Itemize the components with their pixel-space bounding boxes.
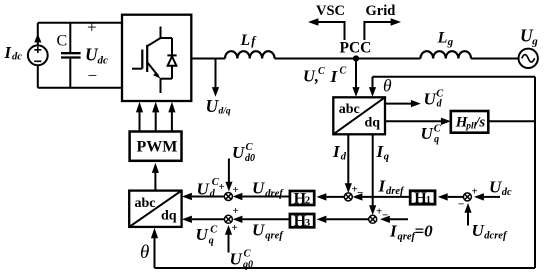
wire pll loop right edge	[534, 77, 536, 268]
wire Udcref input	[467, 213, 469, 226]
arrowhead into abc-dq inverse row1	[182, 193, 192, 200]
current source Idc	[28, 34, 48, 66]
label H2	[294, 190, 311, 207]
svg-text:+: +	[233, 184, 239, 196]
arrow Grid side	[364, 18, 401, 40]
block H1	[410, 191, 435, 204]
svg-text:dc: dc	[502, 187, 512, 198]
svg-text:I: I	[4, 43, 12, 62]
wire H2 to junction Ud	[243, 196, 290, 198]
arrowhead theta inverse	[151, 228, 158, 238]
block H2	[290, 191, 314, 205]
wire ac from VSC to Lf	[191, 58, 225, 60]
wire PWM gate 3	[171, 112, 173, 131]
arrowhead gate 1	[136, 102, 143, 113]
svg-text:abc: abc	[135, 196, 156, 211]
wire ac Lf to Lg	[275, 58, 421, 60]
arrowhead into abc-dq inverse row2	[182, 216, 192, 223]
svg-text:dq: dq	[365, 116, 381, 131]
svg-text:dref: dref	[265, 189, 284, 200]
wire Udc input	[484, 196, 500, 198]
wire UqC out to Hpll	[385, 120, 441, 122]
arrowhead into H3	[317, 216, 327, 223]
wire junction Udc to H1	[448, 196, 464, 198]
diode antiparallel in VSC	[167, 38, 176, 79]
svg-text:g: g	[531, 35, 538, 47]
label Udc	[85, 45, 108, 67]
svg-text:dcref: dcref	[484, 231, 508, 242]
transform box abc-dq measurement	[333, 97, 385, 134]
arrowhead theta into abc-dq	[369, 87, 376, 97]
svg-text:PCC: PCC	[340, 40, 372, 57]
svg-text:3: 3	[305, 218, 310, 229]
summing junction Udc	[463, 193, 471, 201]
svg-text:C: C	[210, 225, 218, 236]
wire junction Id to H2	[327, 196, 345, 198]
svg-text:C: C	[246, 142, 254, 153]
svg-text:dc: dc	[12, 52, 22, 63]
svg-text:C: C	[434, 123, 442, 134]
svg-text:abc: abc	[339, 102, 360, 117]
arrowhead H3 out	[233, 216, 243, 223]
block PWM	[130, 132, 182, 161]
wire PCC to abc-dq	[355, 59, 357, 88]
wire Id down	[347, 134, 349, 183]
node PCC dot	[353, 55, 359, 61]
svg-text:U: U	[206, 96, 220, 116]
label Lf	[240, 32, 258, 49]
svg-text:qref: qref	[265, 231, 284, 242]
svg-text:U: U	[421, 124, 434, 143]
source Ug	[519, 49, 538, 68]
inductor Lf	[225, 51, 275, 58]
svg-text:U: U	[424, 89, 437, 108]
arrowhead Udc	[474, 193, 484, 200]
wire UdC out	[385, 103, 411, 105]
svg-text:q: q	[434, 134, 439, 145]
summing junction Iq	[369, 215, 377, 223]
svg-text:U: U	[252, 221, 265, 240]
transform box abc-dq inverse	[129, 191, 181, 227]
svg-text:1: 1	[426, 195, 431, 206]
arrowhead Udq down	[212, 87, 219, 97]
arrow VSC side	[308, 18, 345, 40]
svg-text:U: U	[230, 250, 243, 269]
wire H3 to junction Uq	[243, 218, 290, 220]
summing junction Ud	[224, 193, 232, 201]
wire junction Uq to abc-dq inverse	[192, 218, 225, 220]
wire abc-dq inverse to PWM	[154, 173, 156, 191]
svg-text:C: C	[340, 66, 347, 77]
label UqC right	[421, 123, 442, 145]
arrowhead Iqref	[380, 216, 390, 223]
label Udc input	[489, 177, 512, 198]
arrowhead UqC into Hpll	[441, 118, 451, 125]
block H3	[290, 214, 314, 227]
svg-text:U: U	[197, 179, 210, 198]
svg-text:C: C	[244, 249, 252, 260]
svg-text:−: −	[458, 199, 464, 211]
label H1	[414, 190, 431, 207]
arrowhead Iq into junction	[369, 205, 376, 215]
wire junction Ud to abc-dq inverse	[192, 196, 225, 198]
svg-text:+: +	[87, 18, 97, 37]
svg-text:U: U	[252, 179, 265, 198]
label Udq	[206, 96, 231, 117]
svg-text:C: C	[57, 33, 68, 50]
svg-text:U: U	[232, 143, 245, 162]
label H3	[294, 213, 311, 230]
svg-text:U: U	[472, 221, 485, 240]
label Uqref	[252, 221, 284, 242]
arrowhead into abc-dq top	[352, 87, 359, 97]
label Id	[332, 142, 347, 163]
svg-text:L: L	[437, 30, 448, 47]
arrowhead Udcref	[464, 203, 471, 213]
arrowhead gate 2	[152, 102, 159, 113]
label Idref	[378, 176, 405, 197]
svg-text:−: −	[88, 66, 98, 85]
wire Ud0 down into junction	[228, 159, 230, 183]
arrowhead UdC	[411, 100, 421, 107]
wire dc left bottom segment	[37, 65, 39, 88]
label UdC right	[424, 88, 445, 109]
svg-text:C: C	[318, 66, 325, 77]
wire dc left top segment	[37, 23, 39, 46]
svg-text:q: q	[384, 152, 389, 163]
svg-text:dc: dc	[98, 54, 109, 66]
arrowhead Ud0	[225, 182, 232, 192]
svg-text:2: 2	[305, 196, 310, 207]
wire Hpll out to loop	[488, 120, 535, 122]
svg-text:Grid: Grid	[366, 3, 396, 19]
svg-text:U: U	[196, 225, 209, 244]
arrowhead H1 out	[353, 193, 363, 200]
svg-text:PWM: PWM	[137, 138, 178, 155]
wire Iqref input	[390, 218, 408, 220]
label Ug	[520, 26, 538, 48]
wire theta into abc-dq inverse	[154, 238, 156, 268]
wire theta into abc-dq	[372, 77, 374, 88]
svg-text:q: q	[209, 235, 214, 246]
wire branch Udq measurement	[215, 59, 217, 88]
arrowhead into H2	[317, 193, 327, 200]
svg-text:/s: /s	[474, 115, 485, 131]
wire Uq0 up into junction	[228, 235, 230, 253]
label Uq0C	[230, 249, 254, 271]
label Udref	[252, 179, 284, 200]
svg-text:L: L	[240, 32, 250, 49]
transistor IGBT inside VSC	[132, 27, 172, 94]
wire junction Iq to H3	[327, 218, 369, 220]
label Iqref equals 0	[389, 222, 433, 243]
label UC IC	[303, 66, 347, 87]
capacitor C	[61, 23, 81, 88]
label Udcref	[472, 221, 508, 242]
svg-text:θ: θ	[140, 242, 149, 263]
svg-text:d/q: d/q	[219, 107, 231, 117]
wire H1 to junction Id	[363, 196, 411, 198]
wire Iq down	[372, 134, 374, 205]
label UdC left	[197, 177, 220, 199]
wire dc top rail	[38, 22, 122, 24]
wire PWM gate 1	[139, 112, 141, 131]
svg-text:=0: =0	[415, 222, 434, 241]
label Iq	[376, 142, 389, 163]
wire PWM gate 2	[155, 112, 157, 131]
svg-text:+: +	[233, 205, 239, 217]
svg-text:+: +	[472, 185, 478, 197]
arrowhead into PWM	[152, 163, 159, 173]
arrowhead H2 out	[233, 193, 243, 200]
converter box VSC	[122, 15, 191, 101]
svg-text:+: +	[219, 181, 225, 193]
svg-text:θ: θ	[383, 75, 392, 95]
svg-text:dq: dq	[161, 208, 177, 223]
arrowhead gate 3	[168, 102, 175, 113]
svg-text:U,: U,	[303, 67, 319, 86]
summing junction Id	[344, 193, 352, 201]
svg-text:VSC: VSC	[316, 3, 345, 19]
label Ud0C	[232, 142, 255, 164]
label Lg	[437, 30, 454, 48]
arrowhead Uq0	[225, 225, 232, 235]
wire pll loop top edge	[373, 76, 536, 78]
arrowhead into H1	[438, 193, 448, 200]
svg-text:+: +	[232, 222, 238, 234]
wire dc bottom rail	[38, 87, 122, 89]
label Idc	[4, 43, 23, 63]
svg-text:U: U	[489, 177, 502, 196]
wire pll loop bottom edge	[155, 267, 536, 269]
arrowhead Id into junction	[345, 183, 352, 193]
svg-text:dref: dref	[386, 186, 405, 197]
wire Lg to Ug	[471, 58, 519, 60]
block Hpll/s	[451, 111, 489, 133]
summing junction Uq	[224, 215, 232, 223]
label UqC left	[196, 225, 219, 247]
svg-text:q0: q0	[243, 260, 253, 271]
svg-text:d: d	[341, 152, 347, 163]
svg-text:g: g	[447, 36, 454, 48]
inductor Lg	[421, 51, 472, 58]
svg-text:d0: d0	[245, 153, 255, 164]
label Hpll/s	[455, 115, 486, 132]
